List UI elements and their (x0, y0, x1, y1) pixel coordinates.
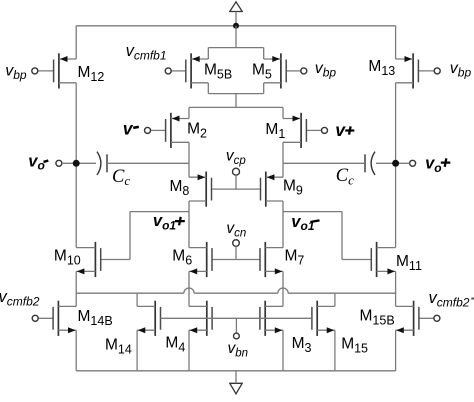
wire Cc left to M8 source line (107, 162, 189, 164)
transistor M6 (NMOS) (189, 242, 236, 277)
terminal v_o+ (410, 160, 416, 166)
wire Cc right to M9 source line (283, 162, 365, 164)
transistor M5B (PMOS) (165, 53, 208, 88)
transistor M5 (PMOS) (264, 53, 307, 88)
wire node v_o1+ branch to M10 gate (130, 211, 189, 213)
wire M14B source to bottom rail (75, 330, 77, 371)
transistor M3 (NMOS) (260, 301, 283, 336)
node v_o- junction (73, 160, 80, 167)
terminal v_cn (233, 240, 240, 247)
wire M9 drain to M7 drain (282, 201, 284, 248)
wire M8 drain to M6 drain (188, 201, 190, 248)
wire M4 source to bottom rail (188, 330, 190, 371)
svg-text:v: v (335, 120, 346, 140)
wire M2 drain to M8 source (188, 142, 190, 177)
transistor M2 (PMOS) (145, 113, 190, 148)
transistor M4 (NMOS) (189, 301, 212, 336)
capacitor Cc left (97, 152, 101, 175)
wire VDD top rail (76, 25, 395, 27)
wire v_o- terminal to Cc (62, 162, 96, 164)
transistor M9 (PMOS) (236, 172, 283, 207)
transistor M14B (NMOS) (32, 301, 76, 336)
wire M15 drain to CMFB line (334, 293, 336, 306)
wire M1 drain to M9 source (282, 142, 284, 177)
wire common-mode feedback line with crossover hops (76, 292, 184, 294)
wire left rail top (VDD to M12 source) (75, 26, 77, 59)
wire M14 source to bottom rail (136, 330, 138, 371)
transistor M14 (NMOS) (137, 301, 160, 336)
wire M5B/M5 drain rail (208, 93, 263, 95)
wire bias gate line M14-M4-M3-M15 (161, 317, 312, 319)
transistor M11 (NMOS) (342, 242, 396, 277)
power VDD symbol (230, 2, 242, 12)
wire right rail top (VDD to M13 source) (395, 26, 397, 59)
wire M7 source to M3 drain (282, 271, 284, 306)
wire M15B source to bottom rail (395, 330, 397, 371)
wire M2/M1 source rail (189, 106, 283, 108)
wire M15 source to bottom rail (334, 330, 336, 371)
transistor M8 (PMOS) (189, 172, 236, 207)
transistor M7 (NMOS) (236, 242, 283, 277)
terminal v_bn (235, 318, 237, 333)
wire VSS bottom rail (76, 370, 395, 372)
node v_o+ junction (392, 160, 399, 167)
transistor M13 (PMOS) (396, 53, 441, 88)
wire M11 source down to M15B drain (395, 271, 397, 306)
wire M3 source to bottom rail (282, 330, 284, 371)
wire M6 source to M4 drain (188, 271, 190, 306)
node VDD rail junction (233, 23, 239, 29)
svg-text:v: v (123, 118, 134, 138)
ground VSS symbol (230, 383, 242, 394)
wire M5B/M5 source rail (208, 47, 263, 49)
capacitor Cc right (371, 152, 375, 175)
transistor M15 (NMOS) (312, 301, 335, 336)
wire v_o+ terminal to Cc (376, 162, 410, 164)
transistor M15B (NMOS) (396, 301, 440, 336)
transistor M12 (PMOS) (32, 53, 76, 88)
terminal v_o- (56, 160, 62, 166)
terminal v_cp (233, 168, 240, 175)
wire M14 drain to CMFB line (136, 293, 138, 306)
wire node v_o1- branch to M11 gate (283, 211, 342, 213)
wire M12 drain to v_o- node and M10 drain (75, 83, 77, 248)
wire M10 source down to M14B drain (75, 271, 77, 306)
wire M13 drain to v_o+ node and M11 drain (395, 83, 397, 248)
transistor M10 (NMOS) (76, 242, 130, 277)
transistor M1 (PMOS) (283, 113, 328, 148)
